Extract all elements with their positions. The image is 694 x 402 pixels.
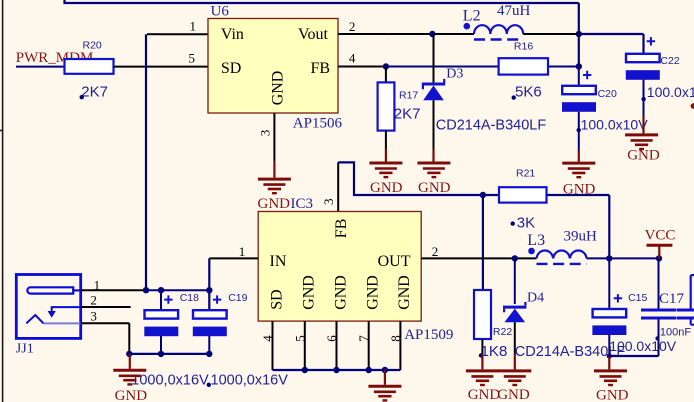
- wire rail down to Vout node: [578, 3, 580, 34]
- resistor R17 2K7: [378, 67, 421, 149]
- svg-text:C19: C19: [228, 292, 247, 304]
- svg-text:AP1509: AP1509: [404, 327, 453, 343]
- svg-text:GND: GND: [418, 180, 451, 196]
- ground stem jack: [129, 354, 131, 369]
- svg-text:IC3: IC3: [291, 196, 314, 212]
- svg-text:C17: C17: [659, 291, 685, 307]
- wire FB of AP1509 to divider: [338, 162, 499, 195]
- pin 4 SD of AP1509: [260, 321, 275, 370]
- svg-text:2K7: 2K7: [394, 106, 421, 123]
- ground stem U6: [273, 162, 275, 178]
- connector JJ1: [16, 275, 81, 357]
- pin 3 FB of AP1509: [321, 162, 338, 211]
- wire Vout node down to FB node: [578, 34, 580, 67]
- pin 2 of JJ1: [81, 293, 131, 308]
- wire divider down to R22: [482, 195, 484, 290]
- node jack gnd junction: [126, 351, 132, 357]
- pin 3 of JJ1: [81, 309, 130, 354]
- svg-text:4: 4: [260, 335, 275, 342]
- svg-text:FB: FB: [333, 219, 350, 239]
- pin 2 Vout of U6: [338, 19, 387, 34]
- pin 3 GND of U6: [257, 113, 274, 162]
- svg-text:5: 5: [292, 335, 307, 342]
- svg-text:GND: GND: [258, 196, 291, 212]
- decorative red fragment top right: [691, 103, 694, 109]
- wire Vout node to C22: [579, 34, 644, 54]
- capacitor at right edge (cut off): [677, 275, 694, 325]
- svg-text:7: 7: [356, 335, 371, 342]
- svg-text:1: 1: [190, 19, 197, 34]
- node divider junction: [480, 192, 486, 198]
- svg-text:4: 4: [349, 51, 356, 66]
- resistor R21 3K: [499, 167, 547, 231]
- ground symbol jack: [113, 370, 146, 384]
- svg-text:L2: L2: [463, 7, 481, 24]
- svg-text:OUT: OUT: [378, 253, 411, 270]
- svg-text:GND: GND: [370, 180, 403, 196]
- ground stem C22: [642, 116, 644, 134]
- pin 5 GND of AP1509: [292, 321, 307, 370]
- capacitor C20: [562, 67, 648, 151]
- ground symbol AP1509: [368, 386, 401, 400]
- wire IN riser: [208, 258, 210, 310]
- ground symbol R22: [466, 371, 499, 385]
- node D3 top junction: [429, 31, 435, 37]
- pin 5 SD of U6: [160, 51, 209, 67]
- svg-text:1000,0x16V: 1000,0x16V: [211, 373, 289, 389]
- pin 2 OUT of AP1509: [421, 244, 470, 259]
- ground stem R17: [385, 149, 387, 162]
- svg-text:100.0x10V: 100.0x10V: [647, 84, 694, 100]
- node bus pin6: [333, 367, 339, 373]
- pin 6 GND of AP1509: [324, 321, 339, 370]
- pin 4 FB of U6: [338, 51, 387, 67]
- ground stem D3: [432, 149, 434, 162]
- node bus pin7: [366, 367, 372, 373]
- svg-text:GND: GND: [115, 388, 148, 402]
- node C18 bottom junction: [158, 351, 164, 357]
- wire to U6 Vin: [147, 33, 160, 35]
- svg-text:3: 3: [90, 309, 97, 324]
- svg-text:AP1506: AP1506: [293, 115, 343, 131]
- svg-text:FB: FB: [311, 60, 331, 77]
- svg-text:GND: GND: [365, 275, 382, 310]
- pin 7 GND of AP1509: [356, 321, 371, 370]
- inductor L2 47uH: [463, 3, 531, 39]
- pin 1 IN of AP1509: [209, 244, 258, 259]
- wire top rail: [65, 0, 579, 3]
- capacitor C22: [626, 37, 694, 115]
- svg-text:2: 2: [349, 19, 356, 34]
- node output (junction after L2): [576, 31, 582, 37]
- ground symbol D4: [498, 371, 531, 385]
- svg-text:U6: U6: [211, 3, 230, 19]
- svg-text:R21: R21: [516, 167, 535, 179]
- svg-text:VCC: VCC: [645, 228, 676, 244]
- capacitor C15: [592, 258, 676, 356]
- node C19 bottom junction: [206, 351, 212, 357]
- node riser/jack junction: [143, 287, 149, 293]
- resistor R22 1K8: [474, 290, 512, 360]
- svg-text:L3: L3: [527, 232, 545, 249]
- svg-text:R16: R16: [514, 40, 533, 52]
- capacitor C19: [193, 292, 288, 389]
- capacitor C17 100nF: [641, 258, 691, 356]
- svg-text:8: 8: [388, 335, 403, 342]
- sheet border line (left edge): [0, 0, 3, 402]
- svg-text:GND: GND: [332, 275, 349, 310]
- ground symbol C22: [625, 135, 658, 149]
- svg-text:1: 1: [239, 244, 246, 259]
- ground stem C20: [578, 150, 580, 162]
- inductor L3 39uH: [527, 228, 597, 264]
- svg-text:2: 2: [432, 244, 439, 259]
- wire OUT to L3: [470, 257, 537, 259]
- svg-text:GND: GND: [468, 387, 501, 402]
- svg-text:D3: D3: [446, 67, 463, 82]
- svg-text:GND: GND: [497, 387, 530, 402]
- svg-text:GND: GND: [596, 388, 629, 402]
- svg-text:GND: GND: [627, 147, 660, 163]
- IC AP1509 body: [258, 212, 453, 343]
- ground stem AP1509: [384, 370, 386, 385]
- svg-text:C15: C15: [628, 292, 647, 304]
- svg-text:100nF: 100nF: [660, 326, 691, 338]
- wire FB line U6: [387, 66, 579, 68]
- ground symbol D3: [417, 163, 450, 177]
- wire R20 to U6 SD pin: [114, 66, 160, 68]
- diode D3 CD214A-B340LF: [422, 34, 547, 149]
- node bus pin5: [302, 367, 308, 373]
- node VCC junction: [656, 255, 662, 261]
- svg-text:C18: C18: [180, 292, 199, 304]
- svg-text:39uH: 39uH: [564, 228, 598, 244]
- node C18 top junction: [158, 287, 164, 293]
- node C19 top junction: [206, 287, 212, 293]
- svg-text:GND: GND: [396, 275, 413, 310]
- svg-text:6: 6: [324, 335, 339, 342]
- pin 1 of JJ1: [81, 277, 146, 292]
- wire AP1509 gnd bus: [273, 369, 401, 371]
- node bus gnd stem: [382, 367, 388, 373]
- wire PWR_MDM to R20: [16, 66, 65, 68]
- node R17 junction: [383, 63, 389, 69]
- wire C17 bottom to C15 gnd: [609, 355, 658, 357]
- svg-text:100.0x10V: 100.0x10V: [581, 116, 649, 132]
- resistor R16 5K6: [499, 40, 548, 100]
- svg-text:R20: R20: [83, 39, 102, 51]
- wire L3 to VCC node: [587, 257, 659, 259]
- svg-text:R22: R22: [493, 326, 512, 338]
- svg-text:GND: GND: [269, 71, 286, 106]
- power symbol VCC: [645, 228, 676, 259]
- svg-text:IN: IN: [270, 253, 287, 270]
- capacitor C18: [131, 290, 209, 388]
- node C15/C17 bottom junction: [607, 353, 612, 358]
- svg-text:47uH: 47uH: [497, 3, 531, 19]
- ground symbol R17: [369, 163, 402, 177]
- svg-text:3: 3: [321, 199, 336, 206]
- svg-text:D4: D4: [527, 290, 544, 305]
- svg-text:5: 5: [189, 51, 196, 66]
- svg-text:GND: GND: [301, 275, 318, 310]
- pin 1 Vin of U6: [160, 19, 209, 35]
- svg-text:2: 2: [90, 293, 97, 308]
- wire Vout to L2: [387, 33, 474, 35]
- svg-text:2K7: 2K7: [81, 84, 108, 101]
- wire bottom gnd bus (jack): [129, 353, 209, 355]
- svg-text:R17: R17: [399, 89, 418, 101]
- svg-text:SD: SD: [268, 289, 285, 309]
- op-amp U6 regulator AP1506 body: [208, 3, 342, 131]
- resistor R20: [65, 59, 114, 74]
- svg-text:Vout: Vout: [298, 26, 328, 43]
- wire R21 to output rail: [547, 195, 610, 258]
- ground stem R22: [481, 354, 483, 369]
- ground symbol C15: [594, 371, 627, 385]
- diode D4 CD214A-B340LF: [503, 258, 625, 360]
- svg-text:1: 1: [94, 277, 101, 292]
- node FB/C20 junction: [576, 63, 582, 69]
- svg-text:SD: SD: [221, 60, 241, 77]
- svg-text:3K: 3K: [517, 214, 535, 231]
- node D4 junction: [512, 255, 518, 261]
- ground symbol U6: [258, 179, 291, 193]
- svg-text:C20: C20: [598, 88, 617, 100]
- pin 8 GND of AP1509: [388, 321, 403, 370]
- svg-text:1000,0x16V: 1000,0x16V: [131, 373, 209, 389]
- svg-text:1K8: 1K8: [481, 343, 508, 360]
- wire vin vertical (supply riser): [145, 34, 147, 290]
- ground stem C15: [608, 356, 610, 369]
- svg-text:Vin: Vin: [221, 26, 244, 43]
- svg-text:CD214A-B340LF: CD214A-B340LF: [436, 118, 547, 134]
- svg-text:3: 3: [257, 130, 272, 137]
- node L3/R21 output junction: [606, 255, 612, 261]
- svg-text:100.0x10V: 100.0x10V: [609, 338, 677, 354]
- wire jack pin1 to C19/IN riser: [146, 289, 209, 291]
- svg-text:JJ1: JJ1: [16, 341, 34, 356]
- svg-text:C22: C22: [660, 55, 679, 67]
- wire L2 to output node: [523, 33, 579, 35]
- svg-text:5K6: 5K6: [515, 84, 542, 101]
- ground symbol C20: [562, 163, 595, 177]
- ground stem D4: [514, 354, 516, 369]
